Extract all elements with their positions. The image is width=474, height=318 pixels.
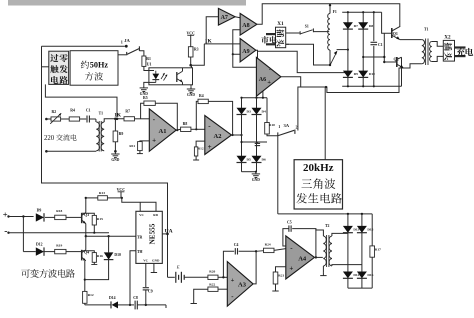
wire AC bottom rail [45,150,96,153]
svg-text:R11: R11 [129,144,135,148]
resistor R3 [188,47,198,57]
A2 feedback resistor R4b [196,94,233,136]
text variable square wave circuit [21,269,75,278]
optocoupler U1 box [149,68,193,85]
A1 feedback resistor R5 [141,96,179,131]
svg-text:R4: R4 [199,94,204,98]
label 1K net right [205,39,213,45]
wire net UA-to-switch long left bus [42,46,168,277]
wire D12-R19 [44,251,55,253]
diode D9b [343,71,358,78]
diode D13 [343,226,360,233]
svg-text:+: + [267,79,271,86]
svg-text:1K: 1K [114,113,122,119]
wire switch1 down to out rail [277,137,279,214]
wire bottom rail riser to Q2 [401,57,403,86]
svg-text:R2: R2 [52,110,57,114]
wire A4 out to T2 [315,256,323,258]
wire A2 out to bridge [232,134,243,136]
resistor R19 [55,243,66,253]
svg-text:VC: VC [139,213,144,217]
svg-text:T2: T2 [325,224,330,228]
wire R18 to Q3 base [66,216,81,218]
plug X1 prongs [266,34,276,44]
svg-text:A8: A8 [242,23,249,29]
diode D14b [343,272,360,279]
box zero-crossing trigger circuit [49,51,69,84]
op-amp A8 [240,13,257,35]
label U1 [147,61,152,66]
op-amp A2 [205,116,232,155]
diode D6 [252,156,267,163]
svg-text:20kHz: 20kHz [303,162,334,174]
diode D5 [237,156,252,163]
IC NE555 box [136,211,162,263]
svg-text:D5: D5 [247,158,252,162]
svg-text:+: + [231,277,235,284]
transistor Q1 [392,27,400,40]
phototransistor emitter wire to ground [190,85,192,87]
resistor R18 [55,209,66,219]
svg-text:D14: D14 [109,296,116,300]
bridge3 left column [347,214,349,288]
svg-text:D9: D9 [37,208,42,212]
diode D3 [237,108,252,115]
resistor R12v [83,291,94,303]
svg-text:C8: C8 [133,296,138,300]
svg-text:1: 1 [278,124,280,129]
wire Q4 collector up [85,236,87,250]
svg-text:1: 1 [121,40,123,45]
text 220VAC [44,134,77,142]
text 20kHz [303,162,334,174]
diode D15 [357,226,374,233]
svg-text:VCC: VCC [117,188,126,192]
phototransistor collector wire [183,65,192,68]
A2 + input resistor R12 [194,141,204,160]
bridge2 bottom rail [342,85,401,87]
op-amp A3 [227,262,253,307]
wire T2 primary top [316,229,324,236]
wire UA bus to battery [168,276,175,278]
svg-text:A6: A6 [259,77,266,83]
wire 1K to A9 input [204,43,240,45]
wire TH to bottom [129,251,136,306]
bridge2 top rail [342,11,381,13]
svg-text:D10: D10 [114,253,121,257]
op-amp A7 [218,8,235,25]
svg-text:GND: GND [187,93,195,97]
transformer T2 [316,224,332,267]
svg-text:+: + [208,143,212,151]
wire LED cathode to ground [144,82,149,85]
transistor Q4 [82,249,89,260]
svg-text:-: - [269,66,271,73]
bridge1 left column [241,98,243,172]
wire Q3 collector up [85,197,87,213]
bottom rail 2 [118,304,134,306]
svg-text:A9: A9 [242,49,249,55]
svg-text:F1: F1 [333,10,337,14]
capacitor C4 [223,243,256,277]
svg-text:+: + [3,210,8,220]
resistor R13 [98,191,108,200]
svg-text:A2: A2 [214,133,222,140]
ground hook under R11 [137,153,143,155]
text san-jiao-bo [301,178,335,188]
A4 plus input R21 [272,267,286,291]
zener D10 [85,235,121,280]
transformer T2 output [422,28,432,65]
text cha-tou X2 [444,43,452,60]
optocoupler LED pins [144,71,156,83]
svg-text:D16: D16 [367,273,373,277]
wire out rail from switch [278,213,345,215]
text shi-dian X1 [261,36,276,43]
diode D4 [252,108,267,115]
svg-text:R3: R3 [194,48,199,52]
wire Q1 collector to top wire [399,4,401,27]
text chong-dian X2 [457,48,474,56]
variac wiper arrow [330,51,337,65]
NE555 pin TR [136,234,143,239]
svg-text:D6: D6 [262,158,267,162]
NE555 GND pin wire [151,263,157,272]
wire R13 to VCC [107,197,123,199]
svg-text:R21: R21 [278,274,284,278]
NE555 output stub [162,233,169,236]
bridge1 mid rail [240,141,267,143]
svg-text:R19: R19 [56,243,62,247]
svg-text:C4: C4 [234,243,239,247]
capacitor C1 [86,109,91,123]
svg-text:R18: R18 [56,209,62,213]
wire node to 1K corner [191,44,205,65]
svg-text:2: 2 [296,125,298,130]
svg-text:TH: TH [137,250,143,254]
plug X2 box [443,35,454,62]
wire C1-T1 [89,119,96,122]
resistor R22 [191,283,228,304]
svg-text:A1: A1 [159,128,167,135]
wire R19 to Q4 base [66,251,81,253]
wire S1 to variac [313,31,329,33]
resistor R9 [113,119,123,142]
svg-text:C1: C1 [86,109,91,113]
svg-text:UA: UA [165,229,173,235]
capacitor C8 [133,296,138,309]
capacitor C5 feedback [283,220,317,258]
wire right col tap to bases [362,56,384,58]
svg-text:D8: D8 [369,24,374,28]
terminal dot AC top [45,118,48,121]
wire A7-A8 [235,17,240,18]
optocoupler LED [149,71,168,83]
svg-text:VCC: VCC [186,31,195,35]
ground under phototransistor [187,87,196,97]
wire A3 out up [253,250,257,284]
svg-text:GND: GND [111,158,119,162]
svg-text:R15: R15 [97,217,103,221]
wire A1 out to R8 [176,128,180,131]
VCC symbol (R3) [186,31,195,46]
branch down to row2 [22,217,24,252]
wire Q1 emitter to T1 [400,39,422,41]
plus rail [9,215,34,217]
bottom rail end hook [165,305,167,308]
resistor R2 variable [50,110,61,124]
resistor R1 [142,56,151,66]
svg-text:T1: T1 [424,28,429,32]
resistor R17 [370,214,381,288]
wire Q4 emitter down [84,261,86,292]
svg-text:D15: D15 [367,227,373,231]
capacitor C1b smoothing [371,12,383,86]
svg-text:GND: GND [152,258,160,262]
ground below T1 secondary [111,152,120,162]
svg-text:A3: A3 [238,282,247,289]
wire R1 to optocoupler [144,66,149,70]
transistor Q2 [384,57,403,69]
svg-text:VC: VC [143,258,148,262]
svg-text:R9: R9 [119,132,124,136]
svg-text:GND: GND [252,178,260,182]
NE555 pin bottom labels [143,258,160,262]
bridge1 top rail [240,97,267,99]
diode D12 [23,243,44,256]
svg-text:R10: R10 [269,123,275,127]
bridge2 left column [347,12,349,86]
VCC symbol 555 [117,188,126,198]
wire A6 plus drop to bridge [258,80,265,98]
wire base bus [383,33,385,63]
bridge2 right column [362,12,364,86]
text NE555 [148,223,156,244]
resistor R10 [265,98,278,136]
box 20kHz triangle wave generator [294,160,342,209]
text yue 50Hz [81,61,109,70]
svg-text:D12: D12 [36,243,43,247]
svg-text:E: E [176,264,180,269]
svg-text:C1: C1 [378,43,383,47]
svg-text:220: 220 [44,135,55,142]
wire wiper tap to bridge2 [337,49,349,51]
svg-text:A7: A7 [221,15,228,21]
terminal plus [3,210,10,220]
wire A9 out node [256,50,348,80]
svg-text:X2: X2 [444,35,451,41]
capacitor C2 [255,142,260,146]
op-amp A9 [240,39,256,62]
svg-text:R17: R17 [375,248,381,252]
plug X1 box [276,21,286,48]
svg-text:-: - [4,227,7,237]
svg-text:+: + [289,264,293,272]
node TR line [86,235,136,237]
wire switch2 up to A6-line [298,87,301,131]
wire R20 to A3 [218,276,227,278]
plug X2 prongs [455,48,466,57]
label switch JA position 1 [121,38,131,45]
diode D9 [36,208,44,221]
label 1K net left [114,113,122,119]
svg-text:R16: R16 [97,254,103,258]
transistor Q3 [82,212,89,224]
svg-text:Q1: Q1 [393,31,398,36]
NE555 pin TH [137,250,143,254]
text guo-ling chu-fa dian-lu [50,54,67,84]
A1 + input resistor R11 [129,141,149,154]
wire R3 to node [189,57,192,67]
svg-text:R13: R13 [99,191,105,195]
wire R16 bottom [91,262,97,264]
top grey bar [8,0,246,6]
wire trigger box left stub [42,66,49,68]
resistor R16 [82,251,103,263]
svg-text:R4: R4 [70,109,75,113]
ground bridge1 [252,172,261,182]
diode D14 [109,296,118,309]
wire inner rail to base bus [382,12,392,33]
wire R7 to A1 inv input [135,118,150,120]
bottom rail [85,303,111,305]
optocoupler phototransistor [177,68,183,85]
svg-text:NE555: NE555 [148,223,156,244]
op-amp A1 [149,109,176,151]
bridge1 bottom rail [242,171,258,173]
wire A6 output stairs [281,68,404,93]
wire trigger box to 1K node [45,84,117,117]
variac F1 [328,4,337,65]
svg-text:D3: D3 [247,110,252,114]
text fang-bo [85,72,103,81]
wire T2 primary bottom to ground [320,266,326,276]
capacitor C9 [143,263,153,305]
wire T2 sec to X2 [432,42,444,62]
wire T2 sec to bridge3 [332,233,362,266]
wire VCC to NE555 pins [122,198,156,211]
op-amp A4 [286,236,315,279]
ground hook under R12 [193,159,199,161]
svg-text:D7: D7 [354,24,359,28]
box approx 50Hz square wave [70,51,118,85]
svg-text:R12: R12 [88,293,94,297]
wire Q2 collector [397,57,402,59]
diode D10b [358,71,375,78]
svg-text:50Hz: 50Hz [90,61,109,70]
wire box top to A6 line [324,87,326,160]
wire Q3 emitter down [85,224,87,238]
wire 1K up to A7 input [206,17,218,44]
resistor R7 [124,109,135,120]
bridge1 right column [256,98,258,172]
switch 3A [278,123,298,137]
svg-text:R5: R5 [143,96,148,100]
wire A8 lower input chain [232,30,257,67]
svg-text:R24: R24 [265,242,271,246]
text fa-sheng-dian-lu [296,193,342,204]
svg-text:S1: S1 [305,25,309,29]
svg-text:C5: C5 [287,220,292,224]
svg-text:D9: D9 [354,72,359,76]
NE555 pin top labels [139,213,158,217]
diode D16 [357,272,374,279]
svg-text:A4: A4 [298,256,307,263]
svg-text:TR: TR [137,235,143,239]
svg-text:T1: T1 [99,111,104,115]
wire D9-R18 [45,216,55,218]
wire A8 out to top rail [257,4,400,27]
wire R4-C1 [80,118,87,120]
wire LED anode from R1 [144,69,149,71]
wire switch JA feed [42,45,128,48]
rail R13 VCC [86,197,98,199]
svg-text:3A: 3A [284,123,290,128]
svg-text:JA: JA [124,38,130,43]
wire secondary top to 1K node [104,118,124,123]
wire Q2 emitter to T1 [404,64,422,68]
text cha-tou X1 [276,29,284,46]
diode D7 [343,22,358,29]
wire R8 to A2 inv [191,128,205,130]
resistor R4 [69,109,79,121]
svg-text:X1: X1 [277,21,284,27]
wire battery to R20 [184,276,208,278]
diode D8 [358,22,373,29]
svg-text:D4: D4 [262,110,267,114]
switch JA [118,46,139,55]
switch S1 [286,25,314,35]
op-amp A6 [256,57,281,96]
svg-text:R22: R22 [209,283,215,287]
wire X1 lower prong stairs [286,44,331,66]
bottom rail 3 [137,304,166,306]
svg-text:R8: R8 [183,122,188,126]
wire R2-R4 [61,118,70,120]
wire AC top rail [46,118,51,120]
transformer T1(mains) [96,111,104,151]
resistor R20 [208,270,218,280]
minus rail [9,232,110,234]
ground under LED [140,86,149,96]
svg-text:R20: R20 [209,270,215,274]
battery E [176,264,184,282]
svg-text:C9: C9 [148,289,153,293]
label UA [165,229,173,235]
svg-text:R7: R7 [125,109,130,113]
svg-text:U1: U1 [147,61,152,66]
bridge3 bottom rail [348,287,372,289]
wire R9 to bottom rail [114,142,117,153]
wire JA to R1 [139,51,144,56]
bridge3 top rail [345,213,373,215]
svg-text:RD: RD [153,213,158,217]
svg-text:R12: R12 [198,147,204,151]
bridge3 right column [361,214,363,288]
terminal minus [4,227,10,237]
resistor R24 [256,242,286,252]
resistor R15 [82,213,103,234]
svg-text:+: + [152,137,156,145]
resistor R8 [181,122,191,131]
